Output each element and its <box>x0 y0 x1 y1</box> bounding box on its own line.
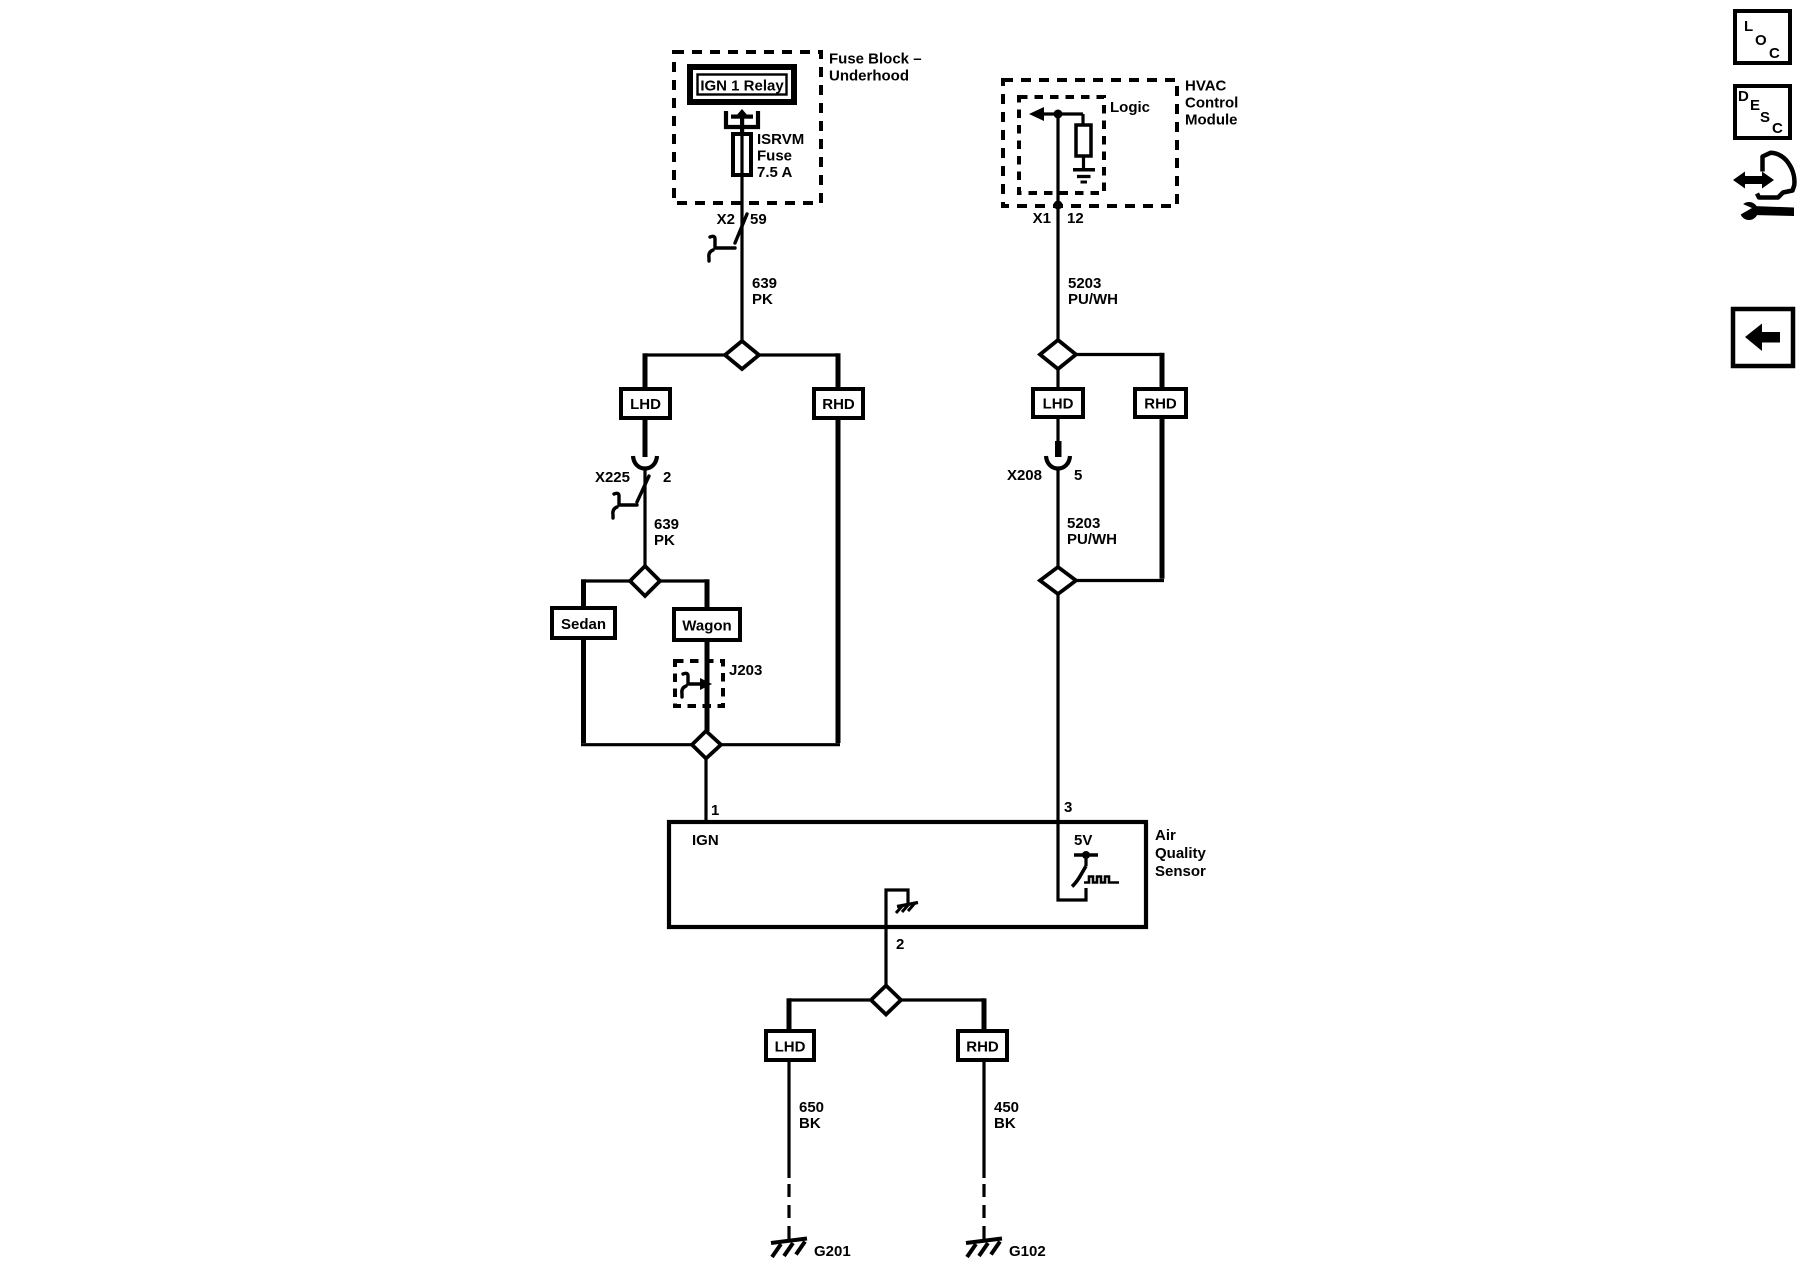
svg-text:PK: PK <box>752 291 773 308</box>
label 450 BK <box>994 1099 1019 1132</box>
svg-text:Module: Module <box>1185 112 1238 129</box>
connector X225 cup <box>633 456 657 469</box>
wire 650 BK dashed <box>787 1184 790 1239</box>
label pin 2 <box>896 936 904 953</box>
label X1 <box>1033 210 1051 227</box>
svg-text:C: C <box>1769 45 1780 62</box>
splice J203 dashed box <box>675 661 723 706</box>
svg-text:Fuse Block –: Fuse Block – <box>829 51 922 68</box>
connector X208 cup <box>1046 456 1070 469</box>
svg-text:5203: 5203 <box>1068 275 1101 292</box>
connector X208 pin <box>1055 417 1062 457</box>
splice diamond R2 <box>1040 567 1076 594</box>
svg-text:Logic: Logic <box>1110 99 1150 116</box>
ground symbol in logic <box>1073 170 1095 182</box>
wire S3 to AQS pin 1 <box>704 758 707 822</box>
wire RHD1 to S3 <box>721 418 840 745</box>
svg-text:ISRVM: ISRVM <box>757 131 804 148</box>
icon DESC box <box>1735 86 1790 138</box>
svg-text:S: S <box>1760 109 1770 126</box>
resistor in logic <box>1076 114 1091 168</box>
junction dot on arrow line <box>1054 110 1063 119</box>
wire RHD2 to R2 <box>1076 417 1164 581</box>
connector X225 hook symbol <box>613 493 637 518</box>
wire 450 BK solid <box>982 1060 985 1178</box>
svg-text:2: 2 <box>663 469 671 486</box>
svg-text:O: O <box>1755 32 1767 49</box>
wire Wagon to splice S3 <box>705 640 710 731</box>
wire AQS pin 2 to splice B <box>884 927 887 985</box>
svg-text:Underhood: Underhood <box>829 68 909 85</box>
wire 650 BK solid <box>787 1060 790 1178</box>
svg-text:RHD: RHD <box>966 1039 999 1056</box>
Wagon box <box>674 609 740 640</box>
wire R2 to AQS pin 3 <box>1056 594 1059 822</box>
svg-text:650: 650 <box>799 1099 824 1116</box>
svg-text:639: 639 <box>654 516 679 533</box>
svg-text:LHD: LHD <box>630 396 661 413</box>
svg-text:LHD: LHD <box>775 1039 806 1056</box>
svg-text:X208: X208 <box>1007 467 1042 484</box>
svg-text:G102: G102 <box>1009 1243 1046 1260</box>
wire LHD1 to X225 <box>643 418 648 457</box>
label pin 3 <box>1064 799 1072 816</box>
svg-text:X225: X225 <box>595 469 630 486</box>
air quality sensor internal element <box>1058 824 1119 900</box>
RHD box 1 <box>814 389 863 418</box>
wire 5203 X208 to splice R2 <box>1056 469 1059 567</box>
label G102 <box>1009 1243 1046 1260</box>
svg-text:12: 12 <box>1067 210 1084 227</box>
label IGN <box>692 832 719 849</box>
label pin 2 X225 <box>663 469 671 486</box>
svg-text:3: 3 <box>1064 799 1072 816</box>
splice J203 symbol <box>682 673 712 697</box>
relay IGN 1 Relay box <box>690 67 794 102</box>
LHD box 1 <box>621 389 670 418</box>
connector X2 slash <box>735 214 747 243</box>
Sedan box <box>552 608 615 638</box>
svg-text:5V: 5V <box>1074 832 1092 849</box>
svg-text:2: 2 <box>896 936 904 953</box>
svg-text:PU/WH: PU/WH <box>1068 291 1118 308</box>
label 5203 PU/WH upper <box>1068 275 1118 308</box>
label G201 <box>814 1243 851 1260</box>
svg-text:1: 1 <box>711 802 719 819</box>
svg-text:PK: PK <box>654 532 675 549</box>
label ISRVM Fuse 7.5 A <box>757 131 804 181</box>
svg-text:Wagon: Wagon <box>682 618 731 635</box>
splice diamond S2 <box>630 566 660 596</box>
ground G201 <box>771 1239 807 1258</box>
icon wrench <box>1736 201 1794 220</box>
svg-text:E: E <box>1750 97 1760 114</box>
svg-text:X1: X1 <box>1033 210 1051 227</box>
ground G102 <box>966 1239 1002 1258</box>
connector X225 slash <box>637 476 649 502</box>
icon transfer arrows <box>1733 153 1794 198</box>
splice diamond S1 <box>725 341 759 369</box>
svg-text:RHD: RHD <box>1144 396 1177 413</box>
svg-text:RHD: RHD <box>822 396 855 413</box>
svg-text:Control: Control <box>1185 95 1238 112</box>
svg-text:C: C <box>1772 120 1783 137</box>
svg-text:Sedan: Sedan <box>561 616 606 633</box>
label X2 <box>717 211 735 228</box>
wire S2 to Wagon <box>660 579 707 609</box>
RHD box 2 <box>1135 389 1186 417</box>
logic arrow <box>1029 107 1083 121</box>
icon back arrow box <box>1733 309 1793 366</box>
label 639 PK upper <box>752 275 777 308</box>
svg-text:J203: J203 <box>729 662 762 679</box>
svg-text:PU/WH: PU/WH <box>1067 531 1117 548</box>
wire B to LHD3 <box>789 998 871 1031</box>
fuse ISRVM 7.5A <box>733 134 751 175</box>
svg-text:HVAC: HVAC <box>1185 78 1227 95</box>
svg-text:BK: BK <box>799 1115 821 1132</box>
wire 639 from fuse to splice S1 <box>740 130 743 341</box>
label Air Quality Sensor <box>1155 827 1207 880</box>
svg-text:IGN: IGN <box>692 832 719 849</box>
svg-text:59: 59 <box>750 211 767 228</box>
svg-text:G201: G201 <box>814 1243 851 1260</box>
label Fuse Block - Underhood <box>829 51 922 85</box>
label 639 PK lower <box>654 516 679 549</box>
svg-text:D: D <box>1738 88 1749 105</box>
label HVAC Control Module <box>1185 78 1238 129</box>
wire R1 to RHD2 <box>1076 353 1162 389</box>
fuse block underhood dashed box <box>674 52 821 203</box>
label pin 12 <box>1067 210 1084 227</box>
splice diamond B <box>871 986 901 1015</box>
svg-text:L: L <box>1744 18 1753 35</box>
wire S1 to LHD1 <box>645 353 725 389</box>
label 5203 PU/WH lower <box>1067 515 1117 548</box>
svg-text:LHD: LHD <box>1043 396 1074 413</box>
svg-text:5: 5 <box>1074 467 1082 484</box>
svg-text:5203: 5203 <box>1067 515 1100 532</box>
HVAC control module dashed box <box>1003 80 1177 206</box>
RHD box 3 <box>958 1031 1007 1060</box>
label pin 1 <box>711 802 719 819</box>
icon LOC box <box>1735 11 1790 63</box>
label 5V <box>1074 832 1092 849</box>
svg-text:7.5 A: 7.5 A <box>757 164 792 181</box>
wire R1 to LHD2 <box>1056 369 1059 389</box>
label 650 BK <box>799 1099 824 1132</box>
label pin 5 <box>1074 467 1082 484</box>
label X225 <box>595 469 630 486</box>
junction dot at module border <box>1054 201 1063 210</box>
label pin 59 <box>750 211 767 228</box>
label Logic <box>1110 99 1150 116</box>
wire S1 to RHD1 <box>759 353 838 389</box>
ground symbol inside AQS <box>886 890 918 925</box>
splice diamond S3 <box>692 731 721 759</box>
air quality sensor box <box>669 822 1146 927</box>
splice diamond R1 <box>1040 340 1076 369</box>
svg-text:Sensor: Sensor <box>1155 863 1206 880</box>
relay output terminal socket <box>726 109 758 134</box>
logic dashed box <box>1019 97 1104 193</box>
svg-text:639: 639 <box>752 275 777 292</box>
svg-text:Fuse: Fuse <box>757 148 792 165</box>
wire Sedan to S3 <box>581 638 692 745</box>
svg-text:BK: BK <box>994 1115 1016 1132</box>
svg-text:X2: X2 <box>717 211 735 228</box>
wire S2 to Sedan <box>584 579 631 608</box>
wire 450 BK dashed <box>982 1184 985 1239</box>
label J203 <box>729 662 762 679</box>
connector X2 hook symbol <box>709 236 735 261</box>
svg-text:IGN 1 Relay: IGN 1 Relay <box>700 78 784 95</box>
wire X1-12 from logic to splice R1 <box>1056 114 1059 340</box>
label X208 <box>1007 467 1042 484</box>
wire B to RHD3 <box>901 998 984 1031</box>
svg-text:Quality: Quality <box>1155 845 1207 862</box>
svg-text:450: 450 <box>994 1099 1019 1116</box>
LHD box 3 <box>766 1031 814 1060</box>
wire 639 X225 to splice S2 <box>643 469 646 566</box>
LHD box 2 <box>1033 389 1083 417</box>
svg-text:Air: Air <box>1155 827 1176 844</box>
